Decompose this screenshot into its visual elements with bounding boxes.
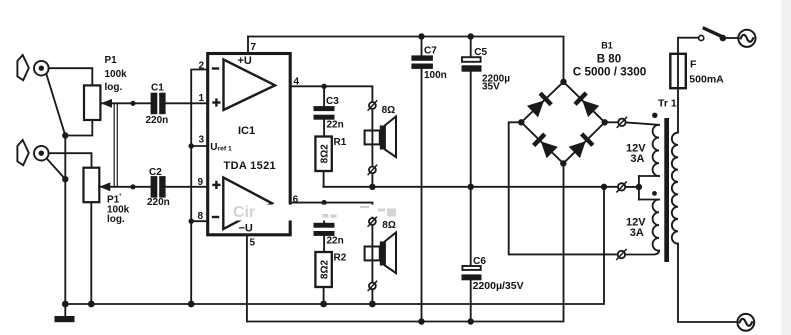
junction dot bridge left (518, 119, 524, 125)
potentiometer P1' body (84, 168, 100, 203)
wire P1 wiper to C1 (101, 102, 151, 104)
junction dot ground column top (62, 132, 68, 138)
jack J1 connector circle (34, 61, 49, 76)
svg-text:+U: +U (238, 55, 252, 67)
wire +U top rail (248, 37, 564, 82)
diode D2 top-right (573, 91, 599, 117)
svg-text:log.: log. (107, 214, 125, 225)
plus sign pin 1 (212, 98, 220, 106)
svg-text:7: 7 (251, 42, 257, 53)
watermark white band (225, 205, 402, 221)
svg-text:2: 2 (199, 60, 205, 71)
minus sign pin 8 (212, 216, 219, 218)
capacitor C2 plates (151, 176, 166, 198)
speaker LS1 terminal bottom (368, 165, 377, 174)
junction dot speaker1 bottom (369, 184, 375, 190)
plus sign pin 9 (212, 181, 220, 189)
junction dot C4 branch (321, 200, 326, 205)
capacitor C4 plates (314, 223, 335, 236)
svg-text:C 5000 / 3300: C 5000 / 3300 (573, 66, 647, 79)
svg-text:100n: 100n (424, 70, 447, 81)
wire bridge right to upper secondary (605, 121, 619, 123)
svg-text:C2: C2 (149, 167, 162, 178)
junction dot ground corner (601, 184, 607, 190)
transformer Tr1 secondary winding upper (653, 125, 659, 176)
svg-text:P1: P1 (105, 55, 118, 66)
svg-text:8: 8 (198, 211, 204, 222)
svg-text:C6: C6 (473, 256, 486, 267)
svg-text:R2: R2 (334, 253, 347, 264)
wire C7 bottom leg to -U (421, 69, 423, 322)
junction dot rail x372 LS2 (369, 301, 376, 308)
ground symbol (55, 304, 75, 322)
wire C3 to R1 (323, 120, 325, 137)
wire lower secondary bottom lead (625, 251, 659, 255)
svg-text:log.: log. (105, 82, 123, 93)
junction dot C6 bottom (468, 318, 474, 324)
gang link double line P1-P1' (114, 103, 117, 187)
wire ground column x=65 (64, 136, 66, 305)
op-amp A2 triangle (223, 178, 272, 230)
wire zobel ground line to centre tap (324, 186, 604, 188)
junction dot rail x65 (62, 301, 69, 308)
junction dot C7 top (418, 33, 424, 39)
op-amp IC1 box (208, 54, 291, 235)
wire C5 top leg (470, 37, 472, 57)
speaker LS2 terminal top (368, 217, 377, 226)
wire P1' bottom to ground rail (90, 202, 92, 304)
junction dot rail x91 (88, 301, 95, 308)
wire primary top to fuse and switch (678, 38, 699, 133)
junction dot C5-C6 midpoint (468, 184, 474, 190)
jack J2 input symbol arrow (17, 140, 28, 165)
capacitor C6 plates electrolytic (462, 266, 482, 280)
wire C3 top leg (323, 86, 325, 106)
svg-text:500mA: 500mA (689, 74, 724, 86)
speaker LS2 terminal bottom (368, 281, 377, 290)
svg-text:9: 9 (198, 177, 204, 188)
potentiometer P1' wiper arrow (99, 182, 110, 191)
svg-text:3: 3 (199, 134, 205, 145)
wire P1' wiper to C2 (99, 186, 150, 188)
svg-text:1: 1 (199, 93, 205, 104)
svg-text:5: 5 (250, 237, 256, 248)
junction dot pin 3 tee (189, 143, 194, 148)
wire ground rail (65, 187, 604, 304)
svg-text:8Ω: 8Ω (382, 220, 396, 231)
diode D1 top-left (527, 92, 553, 118)
connector circle lower secondary (617, 250, 626, 260)
wire pin 8 stub (191, 220, 206, 222)
potentiometer P1 body (84, 85, 100, 120)
speaker LS1 terminal top (368, 101, 377, 110)
jack J1 input symbol arrow (17, 55, 28, 80)
capacitor C1 plates (151, 93, 166, 115)
svg-text:3A: 3A (630, 153, 644, 165)
speaker LS2 body (365, 233, 396, 274)
bridge rectifier B1 diamond sides (521, 82, 604, 164)
wire J1 signal to P1 top (49, 68, 93, 85)
minus sign pin 2 (212, 67, 219, 69)
svg-text:22n: 22n (327, 235, 344, 246)
wire C1 to pin 1 (165, 102, 206, 104)
wire pin 2 stub and ground feedback line x=191 (191, 70, 206, 305)
wire C6 bottom leg to -U (470, 280, 472, 321)
svg-text:8Ω2: 8Ω2 (319, 144, 330, 164)
junction dot bridge right (602, 119, 608, 125)
svg-text:P1': P1' (107, 192, 121, 205)
junction dot wiper wire ch1 (130, 101, 135, 106)
wire top winding bottom lead (639, 175, 659, 177)
svg-text:C1: C1 (151, 83, 164, 94)
svg-text:F: F (690, 59, 697, 71)
wire P1 bottom to ground column (65, 120, 92, 136)
junction dot C5 top (468, 33, 474, 39)
wire J1 shield diagonal (46, 74, 65, 136)
wire LS2 bottom to ground rail (371, 289, 373, 304)
wire LS1 through (371, 109, 373, 167)
svg-text:−U: −U (239, 222, 253, 234)
transformer Tr1 primary winding (672, 133, 678, 244)
capacitor C7 plates (411, 55, 433, 69)
junction dot rail x323 R2 (320, 301, 327, 308)
svg-text:22n: 22n (327, 120, 344, 131)
wire R2 bottom (323, 287, 325, 304)
svg-text:TDA 1521: TDA 1521 (224, 160, 277, 172)
svg-text:220n: 220n (147, 197, 170, 208)
wire bridge left to lower secondary (509, 122, 618, 254)
junction dot rail x191 (188, 301, 195, 308)
op-amp A1 triangle (224, 60, 276, 111)
svg-text:C7: C7 (424, 46, 437, 57)
wire J2 shield diagonal (47, 159, 66, 180)
junction dot bridge top (560, 79, 566, 85)
wire C4 to R2 (323, 236, 325, 252)
svg-text:2200µ/35V: 2200µ/35V (473, 280, 524, 292)
wire pin 4 output (290, 86, 372, 102)
resistor R2 body (315, 252, 331, 287)
wire J2 signal to P1' top (49, 153, 92, 168)
junction dot centre tap (636, 184, 642, 190)
svg-text:B1: B1 (601, 40, 613, 50)
wire pin 3 stub (191, 145, 206, 147)
svg-text:R1: R1 (334, 137, 347, 148)
junction dot C7 bottom (418, 318, 424, 324)
svg-text:4: 4 (294, 76, 300, 87)
junction dot bridge bottom (560, 160, 566, 166)
wire C2 to pin 9 (165, 186, 206, 188)
AC mains source top (738, 30, 755, 47)
svg-text:100k: 100k (105, 69, 128, 80)
svg-text:Cir: Cir (233, 204, 255, 221)
capacitor C3 plates (314, 106, 335, 120)
wire C4 top leg (323, 203, 325, 223)
transformer Tr1 core (664, 118, 669, 262)
transformer Tr1 secondary winding lower (653, 200, 659, 251)
junction dot C3 branch (321, 84, 326, 89)
AC mains source bottom (737, 314, 754, 331)
phase dot upper secondary (652, 113, 657, 118)
wire centre tap vertical (638, 176, 640, 200)
svg-text:220n: 220n (146, 115, 169, 126)
wire pin 6 output (290, 203, 372, 219)
wire connector to winding top (626, 122, 659, 124)
junction dot wiper wire ch2 (130, 184, 135, 189)
svg-text:8Ω: 8Ω (382, 105, 396, 116)
junction dot J2 shield (62, 176, 68, 182)
svg-text:8Ω2: 8Ω2 (319, 259, 330, 279)
svg-text:Tr 1: Tr 1 (658, 97, 677, 109)
wire pin 7 stub (247, 37, 249, 54)
wire ground to centre tap connector (604, 186, 639, 188)
svg-text:C5: C5 (474, 47, 487, 58)
diode D3 bottom-left (532, 132, 558, 158)
svg-text:IC1: IC1 (238, 125, 255, 137)
wire R1 bottom (323, 171, 325, 187)
phase dot lower secondary (652, 191, 657, 196)
diode D4 bottom-right (569, 132, 595, 158)
wire C5 bottom to C6 top (470, 72, 472, 265)
wire C7 top leg (421, 37, 423, 56)
fuse F body (670, 54, 686, 88)
svg-text:35V: 35V (482, 82, 500, 93)
switch S1 (699, 28, 739, 41)
capacitor C5 plates electrolytic (462, 57, 482, 72)
svg-text:C3: C3 (326, 96, 339, 107)
wire bottom winding top lead (639, 199, 659, 201)
watermark remnant text (233, 204, 396, 221)
wire primary bottom to mains (678, 244, 737, 322)
jack J2 connector circle (34, 146, 49, 161)
svg-text:6: 6 (293, 194, 299, 205)
svg-text:3A: 3A (630, 227, 644, 239)
connector circle centre tap (617, 182, 626, 192)
wire LS2 through (371, 225, 373, 283)
connector circle upper secondary (617, 117, 626, 127)
resistor R1 body (315, 137, 331, 172)
wire -U bottom rail (247, 163, 564, 321)
speaker LS1 body (365, 117, 396, 158)
potentiometer P1 wiper arrow (101, 99, 112, 108)
svg-text:B 80: B 80 (597, 54, 621, 66)
wire pin 5 stub down (246, 235, 248, 322)
junction dot pin 8 tee (189, 219, 194, 224)
wire LS1 bottom to ground line (371, 173, 373, 187)
